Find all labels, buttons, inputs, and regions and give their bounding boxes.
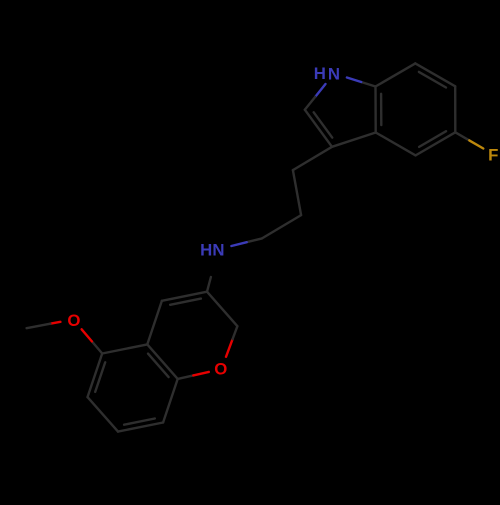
- bond C6r-C7r (chromene): [88, 397, 119, 432]
- svg-text:F: F: [488, 145, 498, 164]
- bond C5r-OMe: [82, 329, 103, 353]
- bond N2-C3r (amine to chromene): [207, 277, 211, 292]
- bond C3a-C4 (indole): [376, 133, 416, 156]
- fusion double bond C4a=C8a (chromene): [147, 344, 177, 379]
- double bond C2=C3 (indole): [305, 110, 332, 147]
- bond C4a-C5r (chromene): [102, 344, 147, 353]
- bond C7a-N1 (indole): [347, 78, 376, 87]
- bond C8a-O1 (chromene): [178, 372, 209, 379]
- bond C2r-C3r (chromene): [207, 292, 237, 327]
- svg-text:O: O: [67, 311, 80, 330]
- svg-text:H: H: [200, 240, 212, 259]
- bond O1-C2r (chromene): [226, 326, 237, 357]
- bond CH2c-N2 amine: [231, 238, 262, 246]
- chain bond CH2b-CH2c: [262, 215, 301, 238]
- svg-text:N: N: [212, 240, 224, 259]
- double bond C5r=C6r (chromene): [88, 354, 106, 398]
- svg-text:H: H: [314, 64, 326, 83]
- chain bond CH2a-CH2b: [293, 170, 301, 215]
- double bond C6=C7 (indole): [415, 63, 455, 87]
- bond C5-C6 (indole): [454, 86, 456, 132]
- double bond C7r=C8r (chromene): [118, 419, 163, 432]
- bond C3-C3a (indole): [332, 133, 376, 147]
- bond C5-F: [455, 132, 483, 148]
- svg-text:O: O: [214, 360, 227, 379]
- bond OMe-CH3: [27, 322, 61, 328]
- bond C7-C7a (indole): [376, 63, 416, 86]
- fusion double bond C3a=C7a (indole): [376, 87, 382, 133]
- bond N1-C2 (indole): [305, 84, 326, 110]
- double bond C4=C5 (indole): [416, 131, 456, 155]
- double bond C3r=C4r (chromene): [162, 292, 207, 305]
- chain bond C3-CH2a: [293, 147, 332, 170]
- bond C8r-C8a (chromene): [163, 379, 178, 423]
- bond C4r-C4a (chromene): [147, 301, 162, 345]
- svg-text:N: N: [328, 65, 340, 84]
